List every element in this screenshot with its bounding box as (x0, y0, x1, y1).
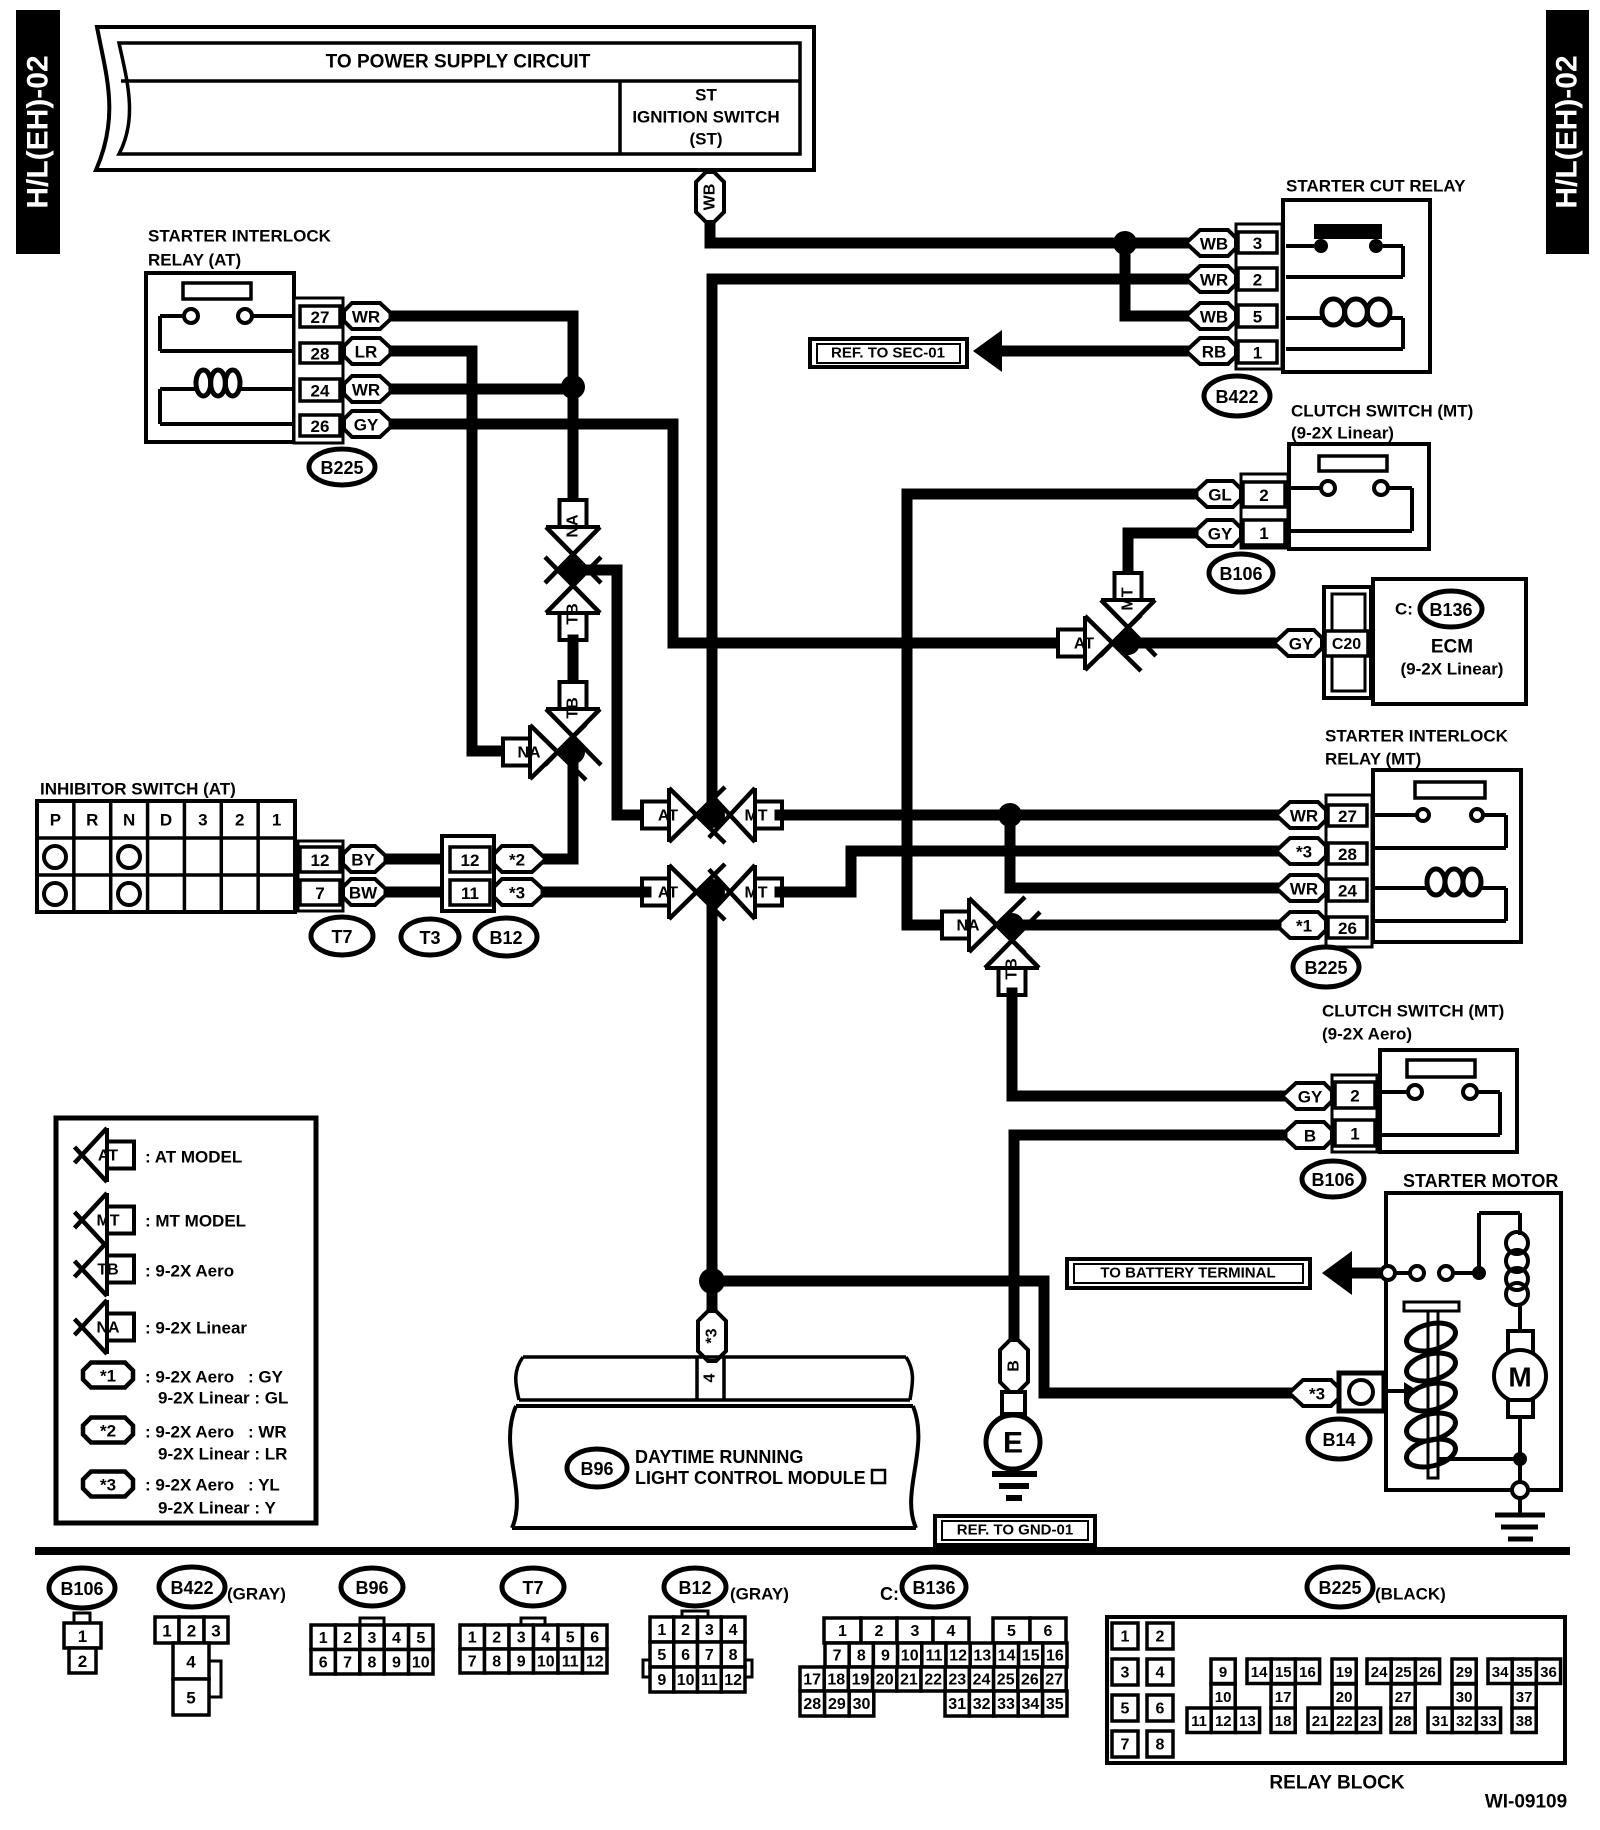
starter motor box (1386, 1193, 1561, 1490)
svg-text:24: 24 (1338, 882, 1357, 901)
DRL module body (512, 1406, 916, 1528)
svg-text:29: 29 (828, 1696, 846, 1713)
svg-text:1: 1 (1121, 1629, 1130, 1646)
svg-text:18: 18 (1275, 1713, 1292, 1730)
svg-text:35: 35 (1516, 1664, 1533, 1681)
svg-text:TB: TB (97, 1262, 118, 1279)
svg-text:29: 29 (1456, 1664, 1473, 1681)
wire WB horizontal to starter cut relay pin 3 (710, 238, 1186, 249)
wire down to connector *2 (546, 752, 573, 859)
page frame label H/L(EH)-02 left (16, 10, 60, 254)
pin 26 (300, 415, 340, 436)
svg-text:21: 21 (1312, 1713, 1329, 1730)
svg-text:*2: *2 (100, 1422, 116, 1441)
svg-text:7: 7 (1121, 1737, 1130, 1754)
svg-text:*3: *3 (100, 1476, 116, 1495)
pin 2 (1243, 482, 1285, 507)
svg-text:14: 14 (1251, 1664, 1268, 1681)
svg-text:R: R (86, 811, 98, 830)
relay box starter interlock relay (MT) (1373, 770, 1521, 942)
svg-text:NA: NA (96, 1320, 120, 1337)
inhibitor contact circles (44, 846, 66, 868)
tag BY (343, 846, 389, 872)
svg-text:GY: GY (1289, 635, 1314, 654)
legend box (56, 1118, 316, 1523)
svg-text:20: 20 (876, 1672, 894, 1689)
svg-text:: YL: : YL (248, 1476, 280, 1495)
ECM connector column (1324, 587, 1371, 698)
svg-text:32: 32 (973, 1696, 991, 1713)
wire between TB arrows (568, 640, 579, 684)
svg-text:8: 8 (1156, 1737, 1165, 1754)
wire GY 26 to AT arrow toward ECM (394, 424, 1062, 643)
connector B106 pin view (74, 1613, 90, 1623)
clutch switch aero box (1380, 1050, 1517, 1152)
tag WR pin 24 (344, 376, 394, 402)
svg-text:21: 21 (900, 1672, 918, 1689)
svg-text:1: 1 (1253, 344, 1262, 363)
svg-text:B106: B106 (1219, 564, 1262, 584)
relay contacts (MT) (1417, 809, 1429, 821)
svg-text:28: 28 (1338, 845, 1357, 864)
wire WR from starter cut relay pin 2 down to AT/MT junction (712, 279, 1186, 815)
svg-text:11: 11 (461, 884, 479, 903)
ground connector rect (1002, 1392, 1025, 1414)
svg-text:2: 2 (492, 1630, 501, 1647)
branch wire to AT arrow of first AT/MT pair (573, 570, 646, 815)
wire WB to pin 5 (1125, 243, 1186, 316)
connector oval B12 bottom (664, 1568, 726, 1606)
svg-text:: AT MODEL: : AT MODEL (145, 1148, 242, 1167)
case ground circle (1512, 1482, 1528, 1498)
junction dot DRL (699, 1268, 725, 1294)
svg-text:34: 34 (1492, 1664, 1509, 1681)
svg-text:WB: WB (702, 184, 719, 211)
connector oval T3 (401, 919, 459, 955)
pin 1 aero (1335, 1120, 1375, 1146)
pin bracket B106 aero (1332, 1075, 1377, 1152)
svg-text:23: 23 (1360, 1713, 1377, 1730)
svg-text:(9-2X Linear): (9-2X Linear) (1291, 424, 1394, 443)
svg-text:B422: B422 (1215, 387, 1258, 407)
svg-text:8: 8 (729, 1647, 738, 1664)
svg-text:IGNITION SWITCH: IGNITION SWITCH (632, 108, 779, 127)
wire BW to T3 (389, 887, 450, 898)
pin bracket B225 (MT) (1326, 795, 1372, 947)
pin bracket B422 (1236, 224, 1282, 369)
svg-text:T7: T7 (331, 927, 352, 947)
wire down to WR 24 (1010, 815, 1276, 888)
svg-text:4: 4 (392, 1630, 401, 1647)
svg-text:*1: *1 (1296, 917, 1312, 936)
svg-text:30: 30 (853, 1696, 871, 1713)
svg-text:WR: WR (1290, 880, 1318, 899)
svg-text:12: 12 (311, 851, 330, 870)
svg-text:7: 7 (343, 1654, 352, 1671)
arrow NA right to *1 wire (969, 898, 994, 952)
connector oval B96 (567, 1449, 627, 1487)
svg-text:WR: WR (352, 308, 380, 327)
svg-text:5: 5 (1121, 1701, 1130, 1718)
svg-text:B12: B12 (678, 1578, 711, 1598)
svg-text:1: 1 (657, 1622, 666, 1639)
svg-text:AT: AT (98, 1148, 118, 1165)
pin 27 (MT) (1328, 805, 1367, 826)
svg-text:STARTER INTERLOCK: STARTER INTERLOCK (1325, 727, 1509, 746)
svg-text:3: 3 (211, 1622, 220, 1641)
svg-text:C:: C: (1395, 600, 1413, 619)
svg-text:*3: *3 (509, 884, 525, 903)
svg-text:3: 3 (911, 1623, 920, 1640)
svg-text:BY: BY (351, 851, 375, 870)
svg-text:WB: WB (1200, 308, 1228, 327)
wire BY to T3 (389, 854, 450, 865)
svg-text:11: 11 (925, 1648, 942, 1665)
svg-text:15: 15 (1275, 1664, 1292, 1681)
wire battery terminal (1352, 1268, 1383, 1279)
svg-text:B14: B14 (1322, 1430, 1355, 1450)
tag B ground (1000, 1340, 1028, 1392)
svg-text:33: 33 (997, 1696, 1015, 1713)
pin 1 cut relay (1238, 341, 1277, 363)
starter motor contacts (1381, 1266, 1395, 1280)
pin 26 (MT) (1328, 917, 1367, 938)
svg-text:B12: B12 (489, 928, 522, 948)
svg-text:7: 7 (833, 1648, 842, 1665)
connector oval B106 linear (1209, 554, 1273, 592)
arrow MT left (pair 1) (730, 788, 755, 842)
svg-text:12: 12 (461, 851, 480, 870)
svg-text:H/L(EH)-02: H/L(EH)-02 (1551, 55, 1584, 208)
svg-text:ECM: ECM (1431, 637, 1473, 658)
svg-text:14: 14 (998, 1648, 1016, 1665)
junction dot WR 27 (998, 803, 1022, 827)
svg-text:1: 1 (468, 1630, 477, 1647)
svg-text:1: 1 (838, 1623, 847, 1640)
svg-text:4: 4 (729, 1622, 738, 1639)
svg-text:TB: TB (1004, 958, 1021, 979)
arrowhead to battery terminal (1322, 1251, 1352, 1295)
arrow MT left (pair 2) (730, 865, 755, 919)
svg-text:(GRAY): (GRAY) (227, 1585, 286, 1604)
svg-text:8: 8 (492, 1654, 501, 1671)
svg-text:24: 24 (311, 382, 330, 401)
tag *2 (494, 846, 546, 872)
svg-text:MT: MT (744, 885, 767, 902)
svg-text:MT: MT (96, 1213, 119, 1230)
clutch switch aero contacts (1408, 1085, 1422, 1099)
svg-text:9: 9 (657, 1672, 666, 1689)
svg-text:AT: AT (658, 808, 678, 825)
plunger contact wire (1384, 1389, 1404, 1393)
svg-text:REF. TO SEC-01: REF. TO SEC-01 (831, 345, 945, 362)
svg-text:1: 1 (162, 1622, 171, 1641)
svg-text:5: 5 (1253, 308, 1262, 327)
svg-text:2: 2 (681, 1622, 690, 1639)
svg-text:33: 33 (1480, 1713, 1497, 1730)
svg-text:20: 20 (1336, 1689, 1353, 1706)
tag *3 pin 28 (MT) (1276, 838, 1326, 864)
svg-text:AT: AT (1074, 636, 1094, 653)
svg-text:11: 11 (701, 1672, 718, 1689)
svg-text:9: 9 (517, 1654, 526, 1671)
power supply banner box (96, 27, 814, 170)
svg-text:7: 7 (315, 884, 324, 903)
svg-text:8: 8 (857, 1648, 866, 1665)
svg-text:3: 3 (368, 1630, 377, 1647)
svg-text:24: 24 (1371, 1664, 1388, 1681)
page frame label H/L(EH)-02 right (1546, 10, 1589, 254)
svg-text:5: 5 (566, 1630, 575, 1647)
connector oval B106 aero (1302, 1161, 1364, 1197)
svg-text:38: 38 (1516, 1713, 1533, 1730)
svg-text:5: 5 (657, 1647, 666, 1664)
svg-text:10: 10 (537, 1654, 555, 1671)
svg-text:2: 2 (1350, 1087, 1359, 1106)
svg-text:5: 5 (416, 1630, 425, 1647)
svg-text:22: 22 (1336, 1713, 1353, 1730)
svg-text:25: 25 (997, 1672, 1015, 1689)
connector oval B422 (1204, 376, 1270, 416)
svg-text:TO BATTERY TERMINAL: TO BATTERY TERMINAL (1100, 1265, 1275, 1282)
wire WB from ignition switch (705, 222, 716, 243)
svg-text:32: 32 (1456, 1713, 1473, 1730)
svg-text:3: 3 (1121, 1665, 1130, 1682)
svg-text:2: 2 (1156, 1629, 1165, 1646)
svg-text:3: 3 (198, 811, 207, 830)
svg-text:C:: C: (880, 1584, 899, 1604)
label box REF. TO SEC-01 (810, 339, 967, 367)
wire spring to motor minus (1438, 1457, 1516, 1461)
svg-text:B225: B225 (1318, 1578, 1361, 1598)
svg-text:11: 11 (1191, 1713, 1207, 1730)
svg-text:1: 1 (319, 1630, 328, 1647)
svg-text:TB: TB (565, 603, 582, 624)
pin 12 (300, 847, 340, 872)
arrow AT right to ECM wire (1085, 616, 1110, 670)
wire TB to clutch switch aero GY (1012, 993, 1282, 1096)
svg-text:3: 3 (517, 1630, 526, 1647)
pin 7 (300, 880, 340, 905)
pin bracket T7 (298, 841, 343, 911)
svg-text:*3: *3 (704, 1328, 721, 1343)
svg-text:9-2X Linear : GL: 9-2X Linear : GL (158, 1389, 288, 1408)
svg-text:B225: B225 (320, 458, 363, 478)
junction dot motor minus (1513, 1452, 1527, 1466)
wire GY to MT arrow (1128, 533, 1193, 567)
relay block left pairs (1112, 1623, 1138, 1649)
wire MT to *3 pin 28 (780, 851, 1276, 892)
svg-text:: 9-2X Aero: : 9-2X Aero (145, 1423, 234, 1442)
relay block box (1107, 1617, 1565, 1763)
junction dot (561, 558, 585, 582)
arrow TB up (546, 588, 600, 613)
tag LR pin 28 (344, 338, 394, 364)
svg-text:B106: B106 (60, 1579, 103, 1599)
svg-text:(ST): (ST) (689, 130, 722, 149)
svg-text:26: 26 (1419, 1664, 1436, 1681)
svg-text:2: 2 (1259, 486, 1268, 505)
tag *3 starter motor (1289, 1380, 1339, 1406)
starter cut relay box (1283, 200, 1430, 372)
svg-text:23: 23 (948, 1672, 966, 1689)
svg-text:6: 6 (1156, 1701, 1165, 1718)
svg-text:6: 6 (1044, 1623, 1053, 1640)
svg-text:: 9-2X Linear: : 9-2X Linear (145, 1319, 247, 1338)
motor M (1508, 1331, 1533, 1352)
tag WB (696, 172, 724, 222)
svg-text:*2: *2 (509, 851, 525, 870)
connector oval B12 (475, 918, 537, 956)
svg-text:9: 9 (1219, 1664, 1227, 1681)
svg-text:18: 18 (827, 1672, 845, 1689)
tag GY C20 (1274, 630, 1322, 656)
arrow TB down (546, 709, 600, 734)
svg-text:35: 35 (1046, 1696, 1064, 1713)
svg-text:H/L(EH)-02: H/L(EH)-02 (22, 55, 55, 208)
svg-text:22: 22 (924, 1672, 942, 1689)
svg-text:28: 28 (311, 345, 330, 364)
tag GY pin 26 (344, 411, 394, 437)
solenoid plunger (1404, 1302, 1459, 1311)
pin 2 aero (1335, 1082, 1375, 1108)
starter motor field coil (1477, 1213, 1481, 1273)
tag *1 pin 26 (MT) (1276, 912, 1326, 938)
svg-text:M: M (1508, 1362, 1531, 1393)
arrow NA down (546, 527, 600, 552)
svg-text:4: 4 (541, 1630, 550, 1647)
separator line (35, 1547, 1570, 1555)
connector oval B225 (309, 449, 375, 485)
svg-text:12: 12 (1215, 1713, 1232, 1730)
svg-text:3: 3 (1253, 234, 1262, 253)
svg-text:: 9-2X Aero: : 9-2X Aero (145, 1368, 234, 1387)
svg-text:9: 9 (881, 1648, 890, 1665)
svg-text:RELAY (AT): RELAY (AT) (148, 251, 241, 270)
svg-text:B106: B106 (1311, 1170, 1354, 1190)
svg-text:31: 31 (948, 1696, 966, 1713)
svg-text:GL: GL (1208, 486, 1232, 505)
relay contact bar (1314, 224, 1382, 239)
svg-text:2: 2 (875, 1623, 884, 1640)
svg-text:12: 12 (586, 1654, 604, 1671)
svg-text:B136: B136 (1429, 600, 1472, 620)
svg-text:B: B (1304, 1127, 1316, 1146)
connector oval B225 (MT) (1293, 947, 1359, 987)
svg-text:CLUTCH SWITCH (MT): CLUTCH SWITCH (MT) (1322, 1002, 1504, 1021)
label box TO BATTERY TERMINAL (1067, 1259, 1310, 1288)
svg-text:B96: B96 (355, 1578, 388, 1598)
svg-text:AT: AT (658, 885, 678, 902)
svg-text:1: 1 (78, 1627, 87, 1646)
svg-text:*1: *1 (100, 1367, 116, 1386)
connector oval B106 bottom (49, 1568, 115, 1608)
pin 28 (MT) (1328, 843, 1367, 864)
label box REF. TO GND-01 (935, 1516, 1095, 1545)
svg-text:11: 11 (562, 1654, 579, 1671)
svg-text:STARTER INTERLOCK: STARTER INTERLOCK (148, 227, 332, 246)
svg-text:*3: *3 (1309, 1385, 1325, 1404)
starter cut relay coil (1286, 316, 1322, 320)
svg-text:C20: C20 (1332, 636, 1361, 653)
svg-text:26: 26 (1338, 919, 1357, 938)
arrow AT right (pair 2) (669, 865, 694, 919)
svg-text:WB: WB (1200, 235, 1228, 254)
svg-text:B: B (1006, 1360, 1023, 1372)
svg-text:WR: WR (1290, 807, 1318, 826)
ground symbol starter motor (1495, 1513, 1545, 1518)
svg-text:GY: GY (354, 416, 379, 435)
svg-text:B422: B422 (170, 1578, 213, 1598)
svg-text:9-2X Linear : Y: 9-2X Linear : Y (158, 1499, 276, 1518)
svg-text:6: 6 (681, 1647, 690, 1664)
solenoid spring (1404, 1318, 1459, 1355)
svg-text:13: 13 (1239, 1713, 1256, 1730)
pin 24 (300, 379, 340, 401)
svg-text:LIGHT CONTROL MODULE: LIGHT CONTROL MODULE (635, 1468, 866, 1488)
connector oval T7 (311, 917, 373, 955)
ground symbol (992, 1471, 1037, 1477)
tag GY (1193, 520, 1241, 546)
svg-text:(BLACK): (BLACK) (1375, 1585, 1446, 1604)
svg-text:6: 6 (590, 1630, 599, 1647)
wire down to NA arrow (568, 387, 579, 496)
svg-text:34: 34 (1022, 1696, 1040, 1713)
connector oval B14 (1308, 1419, 1370, 1459)
pin 4 DRL (695, 1357, 699, 1400)
svg-text:: WR: : WR (248, 1423, 287, 1442)
svg-text:: MT MODEL: : MT MODEL (145, 1212, 246, 1231)
junction dot *1 wire (1000, 913, 1024, 937)
svg-text:MT: MT (744, 808, 767, 825)
junction dot pair 1 (699, 802, 725, 828)
svg-text:: 9-2X Aero: : 9-2X Aero (145, 1262, 234, 1281)
connector oval B422 bottom (159, 1567, 225, 1607)
svg-text:2: 2 (1253, 271, 1262, 290)
svg-text:D: D (160, 811, 172, 830)
tag *3 (494, 879, 546, 905)
pin 2 cut relay (1238, 268, 1277, 290)
svg-text:16: 16 (1299, 1664, 1316, 1681)
svg-text:10: 10 (677, 1672, 695, 1689)
svg-text:9: 9 (392, 1654, 401, 1671)
bracket T3/B12 (442, 836, 494, 911)
relay box starter interlock relay (AT) (146, 273, 294, 442)
svg-text:: GY: : GY (248, 1368, 284, 1387)
svg-text:N: N (123, 811, 135, 830)
svg-text:27: 27 (311, 308, 330, 327)
svg-text:7: 7 (468, 1654, 477, 1671)
svg-text:8: 8 (368, 1654, 377, 1671)
wire GY to ECM C20 (1128, 638, 1274, 649)
connector B96 pin view (360, 1618, 384, 1625)
legend arrow TB (82, 1242, 107, 1296)
pin 12 (B12) (450, 847, 490, 872)
pin 27 (300, 306, 340, 327)
relay block groups (1211, 1659, 1235, 1684)
svg-text:TO POWER SUPPLY CIRCUIT: TO POWER SUPPLY CIRCUIT (326, 52, 591, 73)
wire GL to NA arrow near relay MT (907, 494, 1193, 925)
junction dot WR (561, 375, 585, 399)
svg-text:12: 12 (949, 1648, 967, 1665)
svg-text:BW: BW (349, 884, 378, 903)
svg-text:(9-2X Linear): (9-2X Linear) (1401, 660, 1504, 679)
wire WR 27 to junction (394, 316, 573, 387)
connector B422 pin view (155, 1617, 179, 1643)
arrow TB up below *1 junction (985, 943, 1039, 968)
junction dot (561, 740, 585, 764)
arrow NA right (530, 725, 555, 779)
